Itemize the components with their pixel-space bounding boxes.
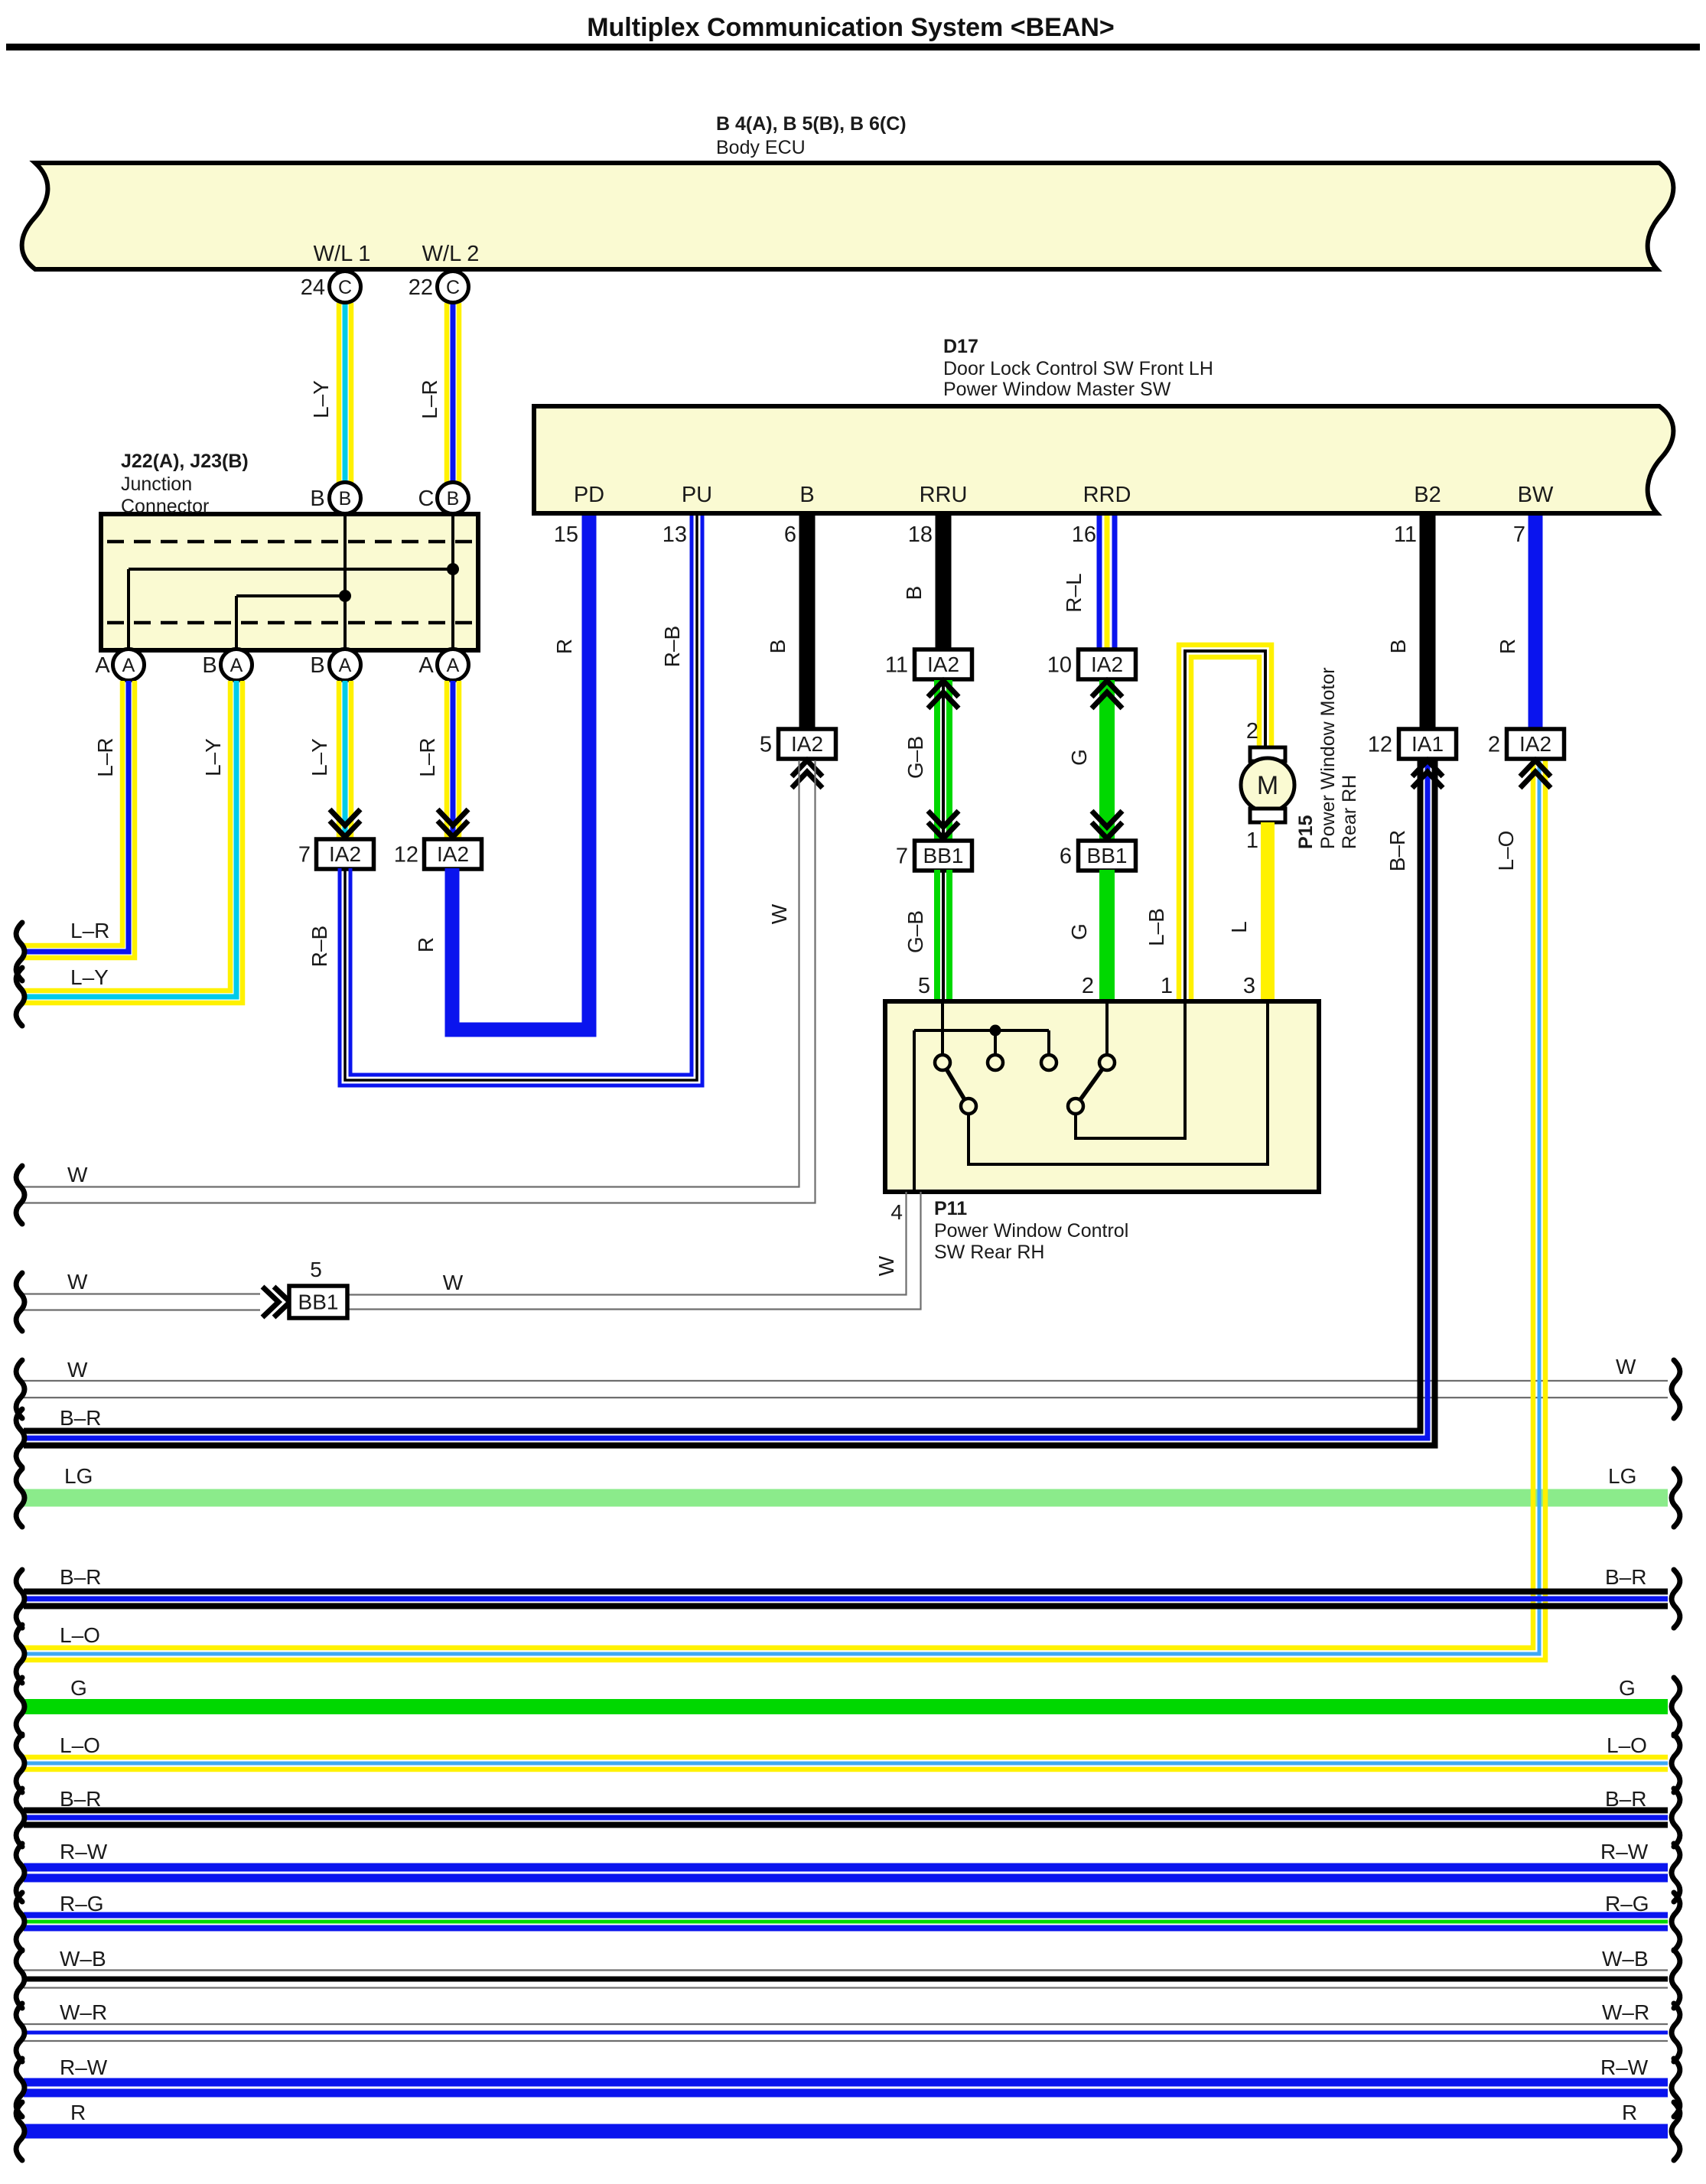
wire W-R full row (24, 2040, 1668, 2042)
wire L-R from junction pin A to left connector break (24, 681, 122, 946)
wire W-B full row (24, 1987, 1668, 1988)
wire B-R full row 2 (24, 1603, 1668, 1610)
svg-text:L–R: L–R (70, 919, 109, 942)
P11 contact circle a (935, 1055, 950, 1070)
svg-text:B–R: B–R (60, 1406, 101, 1430)
svg-text:22: 22 (409, 275, 433, 300)
connector 11 IA2 (915, 649, 972, 679)
svg-text:BB1: BB1 (298, 1291, 339, 1314)
P11 internal node (990, 1025, 1001, 1037)
wire L-B from P11 pin 1 up over to motor terminal 2 (1191, 657, 1259, 1001)
svg-text:W–R: W–R (1602, 2000, 1649, 2024)
svg-text:L–B: L–B (1144, 908, 1168, 946)
svg-text:W/L 1: W/L 1 (314, 242, 371, 266)
svg-text:P11: P11 (934, 1198, 967, 1219)
svg-text:W/L 2: W/L 2 (422, 242, 480, 266)
svg-text:A: A (230, 655, 243, 676)
svg-text:R–G: R–G (60, 1892, 104, 1915)
svg-text:PD: PD (574, 483, 604, 507)
svg-text:6: 6 (1060, 845, 1072, 869)
svg-text:R: R (414, 937, 438, 952)
wire W from 5 IA2 down to left connector break (24, 760, 799, 1187)
svg-text:W: W (874, 1255, 898, 1276)
svg-text:Multiplex Communication System: Multiplex Communication System <BEAN> (587, 13, 1115, 42)
P11 contact circle lever2 end (1068, 1099, 1083, 1114)
svg-text:L–O: L–O (1607, 1733, 1647, 1757)
svg-text:R–W: R–W (60, 2055, 108, 2079)
svg-text:7: 7 (896, 845, 908, 869)
svg-text:C: C (418, 487, 435, 511)
svg-text:2: 2 (1082, 974, 1094, 998)
svg-text:2: 2 (1246, 719, 1258, 744)
svg-text:B: B (447, 488, 460, 509)
svg-text:B 4(A), B 5(B), B 6(C): B 4(A), B 5(B), B 6(C) (716, 113, 907, 135)
junction connector bottom pin circle B(A) 3 (330, 649, 361, 681)
svg-text:Door Lock Control SW Front LH: Door Lock Control SW Front LH (943, 358, 1213, 379)
junction internal wire to pin B1 vertical (235, 596, 238, 649)
svg-text:Connector: Connector (121, 496, 209, 517)
wire L-O from 2 IA2 connector row (24, 760, 1545, 1660)
thick wire B from D17 pin 6 to 5 IA2 (799, 516, 816, 729)
svg-text:R: R (1496, 639, 1519, 654)
P11 switch lever 2 (1076, 1063, 1107, 1106)
svg-text:Power Window Motor: Power Window Motor (1317, 667, 1339, 849)
wire L-O full row (24, 1767, 1668, 1772)
chevron into 7 IA2 (330, 821, 360, 837)
wire R-B from 7 IA2 down right and up to D17 PU (340, 516, 702, 1085)
connector break brace L-R (16, 923, 24, 981)
junction connector top pin circle C(B) (438, 483, 469, 514)
wire R-W full row 2 (24, 2089, 1668, 2098)
Body ECU block B4(A) B5(B) B6(C) (22, 163, 1674, 269)
svg-text:Power Window Master SW: Power Window Master SW (943, 379, 1171, 400)
P11 internal lead from pin 2 (1105, 1004, 1109, 1056)
svg-text:L–Y: L–Y (201, 738, 225, 776)
svg-text:B–R: B–R (60, 1565, 101, 1589)
svg-text:B: B (339, 488, 352, 509)
svg-text:W: W (767, 903, 791, 924)
junction connector bottom pin circle A(A) 1 (113, 649, 145, 681)
svg-text:5: 5 (760, 733, 772, 757)
svg-text:B–R: B–R (60, 1787, 101, 1811)
svg-text:5: 5 (310, 1258, 322, 1281)
svg-text:W: W (1616, 1355, 1636, 1378)
svg-text:BB1: BB1 (923, 844, 964, 867)
wire B-R full row 3 (24, 1822, 1668, 1828)
svg-text:PU: PU (682, 483, 712, 507)
chevron out of 5 IA2 (792, 760, 822, 776)
svg-text:10: 10 (1047, 653, 1072, 678)
wire W full row (24, 1380, 1668, 1382)
svg-text:L–Y: L–Y (308, 738, 331, 776)
svg-text:Body ECU: Body ECU (716, 137, 806, 158)
wire G-B from 11 IA2 to 7 BB1 (934, 680, 940, 841)
svg-text:B: B (310, 653, 324, 678)
svg-text:B: B (310, 487, 324, 511)
svg-text:G–B: G–B (903, 736, 927, 779)
svg-text:W: W (443, 1271, 464, 1294)
svg-text:R–W: R–W (1600, 1840, 1649, 1863)
svg-text:J22(A), J23(B): J22(A), J23(B) (121, 451, 249, 472)
svg-text:A: A (418, 653, 434, 678)
wire R-L from D17 pin 16 to 10 IA2 (1097, 516, 1102, 649)
svg-text:B: B (202, 653, 217, 678)
svg-text:A: A (339, 655, 352, 676)
svg-text:B: B (799, 483, 814, 507)
svg-text:5: 5 (918, 974, 930, 998)
connector 5 BB1 (289, 1286, 347, 1318)
svg-text:6: 6 (784, 522, 796, 547)
svg-text:IA2: IA2 (1519, 732, 1551, 756)
motor P15 body M (1241, 758, 1294, 812)
P11 contact circle b (988, 1055, 1003, 1070)
wire W from P11 pin 4 down to BB1 row (348, 1192, 907, 1295)
svg-text:4: 4 (890, 1200, 903, 1224)
svg-text:12: 12 (394, 843, 418, 867)
chevron out of 10 IA2 (1092, 681, 1122, 697)
svg-text:11: 11 (885, 653, 908, 678)
svg-text:W–B: W–B (1602, 1947, 1649, 1971)
thick wire B from D17 pin 18 to 11 IA2 (936, 516, 952, 649)
svg-text:B: B (766, 640, 790, 654)
connector 2 IA2 (1507, 729, 1564, 759)
junction node on B-B line (339, 590, 351, 602)
svg-text:G: G (1067, 749, 1091, 766)
svg-text:12: 12 (1368, 733, 1392, 757)
thick wire G from 10 IA2 to 6 BB1 (1099, 680, 1115, 841)
svg-text:R–W: R–W (60, 1840, 108, 1863)
junction connector top pin circle B(B) (330, 483, 361, 514)
connector 12 IA2 (425, 839, 482, 869)
connector 12 IA1 (1399, 729, 1457, 759)
wire B-R from 12 IA1 connector row (24, 760, 1435, 1446)
wire R full row (24, 2124, 1668, 2139)
chevron into 12 IA2 (438, 821, 468, 837)
svg-text:B–R: B–R (1605, 1565, 1646, 1589)
svg-text:P15: P15 (1295, 815, 1317, 849)
svg-text:G: G (70, 1676, 87, 1700)
svg-text:18: 18 (908, 522, 933, 547)
svg-text:7: 7 (1513, 522, 1525, 547)
svg-text:L–R: L–R (415, 737, 439, 776)
svg-text:24: 24 (301, 275, 325, 300)
connector 10 IA2 (1079, 649, 1136, 679)
svg-text:1: 1 (1246, 828, 1258, 853)
P11 lever 1 output to pin 3 (969, 1004, 1268, 1164)
svg-text:IA2: IA2 (437, 842, 469, 866)
svg-text:A: A (447, 655, 460, 676)
wire W/L1 L-Y from Body ECU to junction connector (337, 303, 342, 483)
wire L-Y from junction pin B to connector 7 IA2 (337, 681, 342, 839)
svg-text:L–Y: L–Y (70, 965, 109, 989)
svg-text:B: B (902, 586, 926, 601)
svg-text:IA1: IA1 (1411, 732, 1444, 756)
svg-text:1: 1 (1161, 974, 1173, 998)
connector 5 IA2 (779, 729, 836, 759)
svg-text:R: R (552, 639, 576, 654)
svg-text:W–B: W–B (60, 1947, 106, 1971)
junction connector dashed bus lower (107, 621, 473, 625)
svg-text:R–G: R–G (1605, 1892, 1649, 1915)
svg-text:13: 13 (663, 522, 687, 547)
svg-text:Power Window Control: Power Window Control (934, 1220, 1128, 1242)
svg-text:SW Rear RH: SW Rear RH (934, 1242, 1044, 1263)
svg-text:L–O: L–O (1494, 831, 1518, 871)
junction internal bus wire horizontal lower (236, 594, 345, 597)
svg-text:L–O: L–O (60, 1733, 100, 1757)
svg-text:R–B: R–B (660, 626, 684, 667)
Body ECU terminal circle 24 C (330, 272, 361, 303)
svg-text:Junction: Junction (121, 474, 192, 495)
svg-text:L: L (1227, 921, 1251, 933)
connector break brace B-R row D (16, 1409, 24, 1467)
junction node on C-A line (447, 563, 459, 575)
svg-text:C: C (338, 277, 352, 298)
junction internal bus wire horizontal upper (129, 568, 453, 571)
svg-text:LG: LG (64, 1464, 93, 1488)
wire R-G full row (24, 1925, 1668, 1932)
thick wire R from D17 pin 7 to 2 IA2 (1529, 516, 1543, 729)
svg-text:11: 11 (1394, 522, 1417, 547)
wire L-R from junction pin A to connector 12 IA2 (444, 681, 450, 839)
wire W row with 5 BB1 left part (24, 1293, 260, 1294)
svg-text:IA2: IA2 (791, 732, 823, 756)
chevron out of 12 IA1 (1412, 760, 1443, 776)
svg-text:R: R (1622, 2101, 1637, 2124)
thick wire L from motor terminal 1 to P11 pin 3 (1261, 822, 1275, 1001)
svg-text:LG: LG (1608, 1464, 1636, 1488)
svg-text:A: A (122, 655, 135, 676)
svg-text:L–R: L–R (418, 379, 441, 418)
chevron out of 2 IA2 (1520, 760, 1551, 776)
P11 switch lever 1 (943, 1063, 969, 1106)
P11 contact circle lever1 end (961, 1099, 976, 1114)
svg-text:L–R: L–R (93, 737, 117, 776)
chevron into 6 BB1 (1092, 822, 1122, 838)
connector break brace L-O row G (16, 1625, 24, 1683)
chevron out of 11 IA2 (928, 681, 959, 697)
wire L-Y from junction pin B to left connector break (24, 681, 230, 991)
svg-text:R: R (70, 2101, 86, 2124)
svg-text:IA2: IA2 (927, 653, 959, 676)
svg-text:IA2: IA2 (329, 842, 361, 866)
svg-text:G–B: G–B (903, 910, 927, 953)
connector break brace L-Y (16, 968, 24, 1026)
chevron into 5 BB1 (274, 1287, 290, 1317)
svg-text:L–Y: L–Y (309, 380, 333, 418)
connector break brace W row A (16, 1166, 24, 1224)
svg-text:RRU: RRU (920, 483, 968, 507)
svg-text:BW: BW (1518, 483, 1554, 507)
svg-text:W: W (67, 1270, 88, 1294)
wire G-B from 7 BB1 to P11 pin 5 (934, 870, 940, 1001)
svg-text:B–R: B–R (1385, 830, 1409, 871)
svg-text:W–R: W–R (60, 2000, 107, 2024)
connector 6 BB1 (1079, 841, 1136, 871)
motor P15 bottom terminal (1250, 809, 1285, 822)
svg-text:R–B: R–B (308, 926, 331, 967)
svg-text:R–W: R–W (1600, 2055, 1649, 2079)
svg-text:B: B (1386, 640, 1410, 654)
P11 Power Window Control SW Rear RH block (885, 1001, 1319, 1192)
svg-text:G: G (1067, 923, 1091, 940)
P11 lever 2 output to pin 1 (1076, 1004, 1185, 1138)
P11 internal bus horizontal (914, 1029, 1049, 1032)
svg-text:Rear RH: Rear RH (1339, 775, 1360, 849)
connector 7 BB1 (915, 841, 972, 871)
svg-text:16: 16 (1072, 522, 1096, 547)
svg-text:2: 2 (1488, 733, 1500, 757)
wire G full row (24, 1699, 1668, 1714)
P11 internal lead center contact (994, 1030, 997, 1056)
P11 internal lead right contact (1047, 1030, 1050, 1056)
svg-text:D17: D17 (943, 336, 978, 357)
svg-text:A: A (95, 653, 110, 678)
chevron into 7 BB1 (928, 822, 959, 838)
junction connector bottom pin circle B(A) 2 (221, 649, 252, 681)
junction connector dashed bus upper (107, 540, 473, 544)
svg-text:IA2: IA2 (1091, 653, 1123, 676)
P11 internal lead from pin 5 (941, 1004, 944, 1056)
wire W/L2 L-R from Body ECU to junction connector (444, 303, 450, 483)
svg-text:R–L: R–L (1062, 573, 1086, 612)
junction connector J22(A) J23(B) block (101, 514, 478, 650)
title underline rule (6, 44, 1700, 50)
svg-text:W: W (67, 1358, 88, 1382)
thick wire G from 6 BB1 to P11 pin 2 (1099, 870, 1115, 1001)
svg-text:3: 3 (1243, 974, 1255, 998)
motor P15 top terminal (1250, 747, 1285, 761)
connector 7 IA2 (317, 839, 374, 869)
svg-text:C: C (446, 277, 460, 298)
svg-text:RRD: RRD (1083, 483, 1131, 507)
svg-text:15: 15 (554, 522, 578, 547)
junction internal wire C-A vertical (451, 516, 454, 649)
wire R-W full row (24, 1874, 1668, 1883)
wire LG full row (24, 1489, 1668, 1507)
svg-text:W: W (67, 1163, 88, 1186)
junction internal wire to pin A1 vertical (127, 569, 130, 649)
thick wire R from 12 IA2 down right and up to D17 PD (452, 516, 589, 1030)
P11 contact circle c (1041, 1055, 1056, 1070)
svg-text:B2: B2 (1414, 483, 1441, 507)
svg-text:M: M (1257, 771, 1278, 800)
thick wire B from D17 pin 11 to 12 IA1 (1420, 516, 1436, 729)
svg-text:G: G (1619, 1676, 1636, 1700)
svg-text:BB1: BB1 (1087, 844, 1128, 867)
P11 internal lead to pin 4 (913, 1030, 916, 1190)
D17 Power Window Master SW block (534, 406, 1673, 513)
Body ECU terminal circle 22 C (438, 272, 469, 303)
svg-text:7: 7 (298, 843, 311, 867)
junction internal wire B-B vertical (343, 516, 347, 649)
junction connector bottom pin circle A(A) 4 (438, 649, 469, 681)
connector break brace W row B (16, 1273, 24, 1331)
P15 label block (1295, 667, 1360, 849)
P11 contact circle d (1099, 1055, 1115, 1070)
svg-text:L–O: L–O (60, 1623, 100, 1647)
svg-text:B–R: B–R (1605, 1787, 1646, 1811)
